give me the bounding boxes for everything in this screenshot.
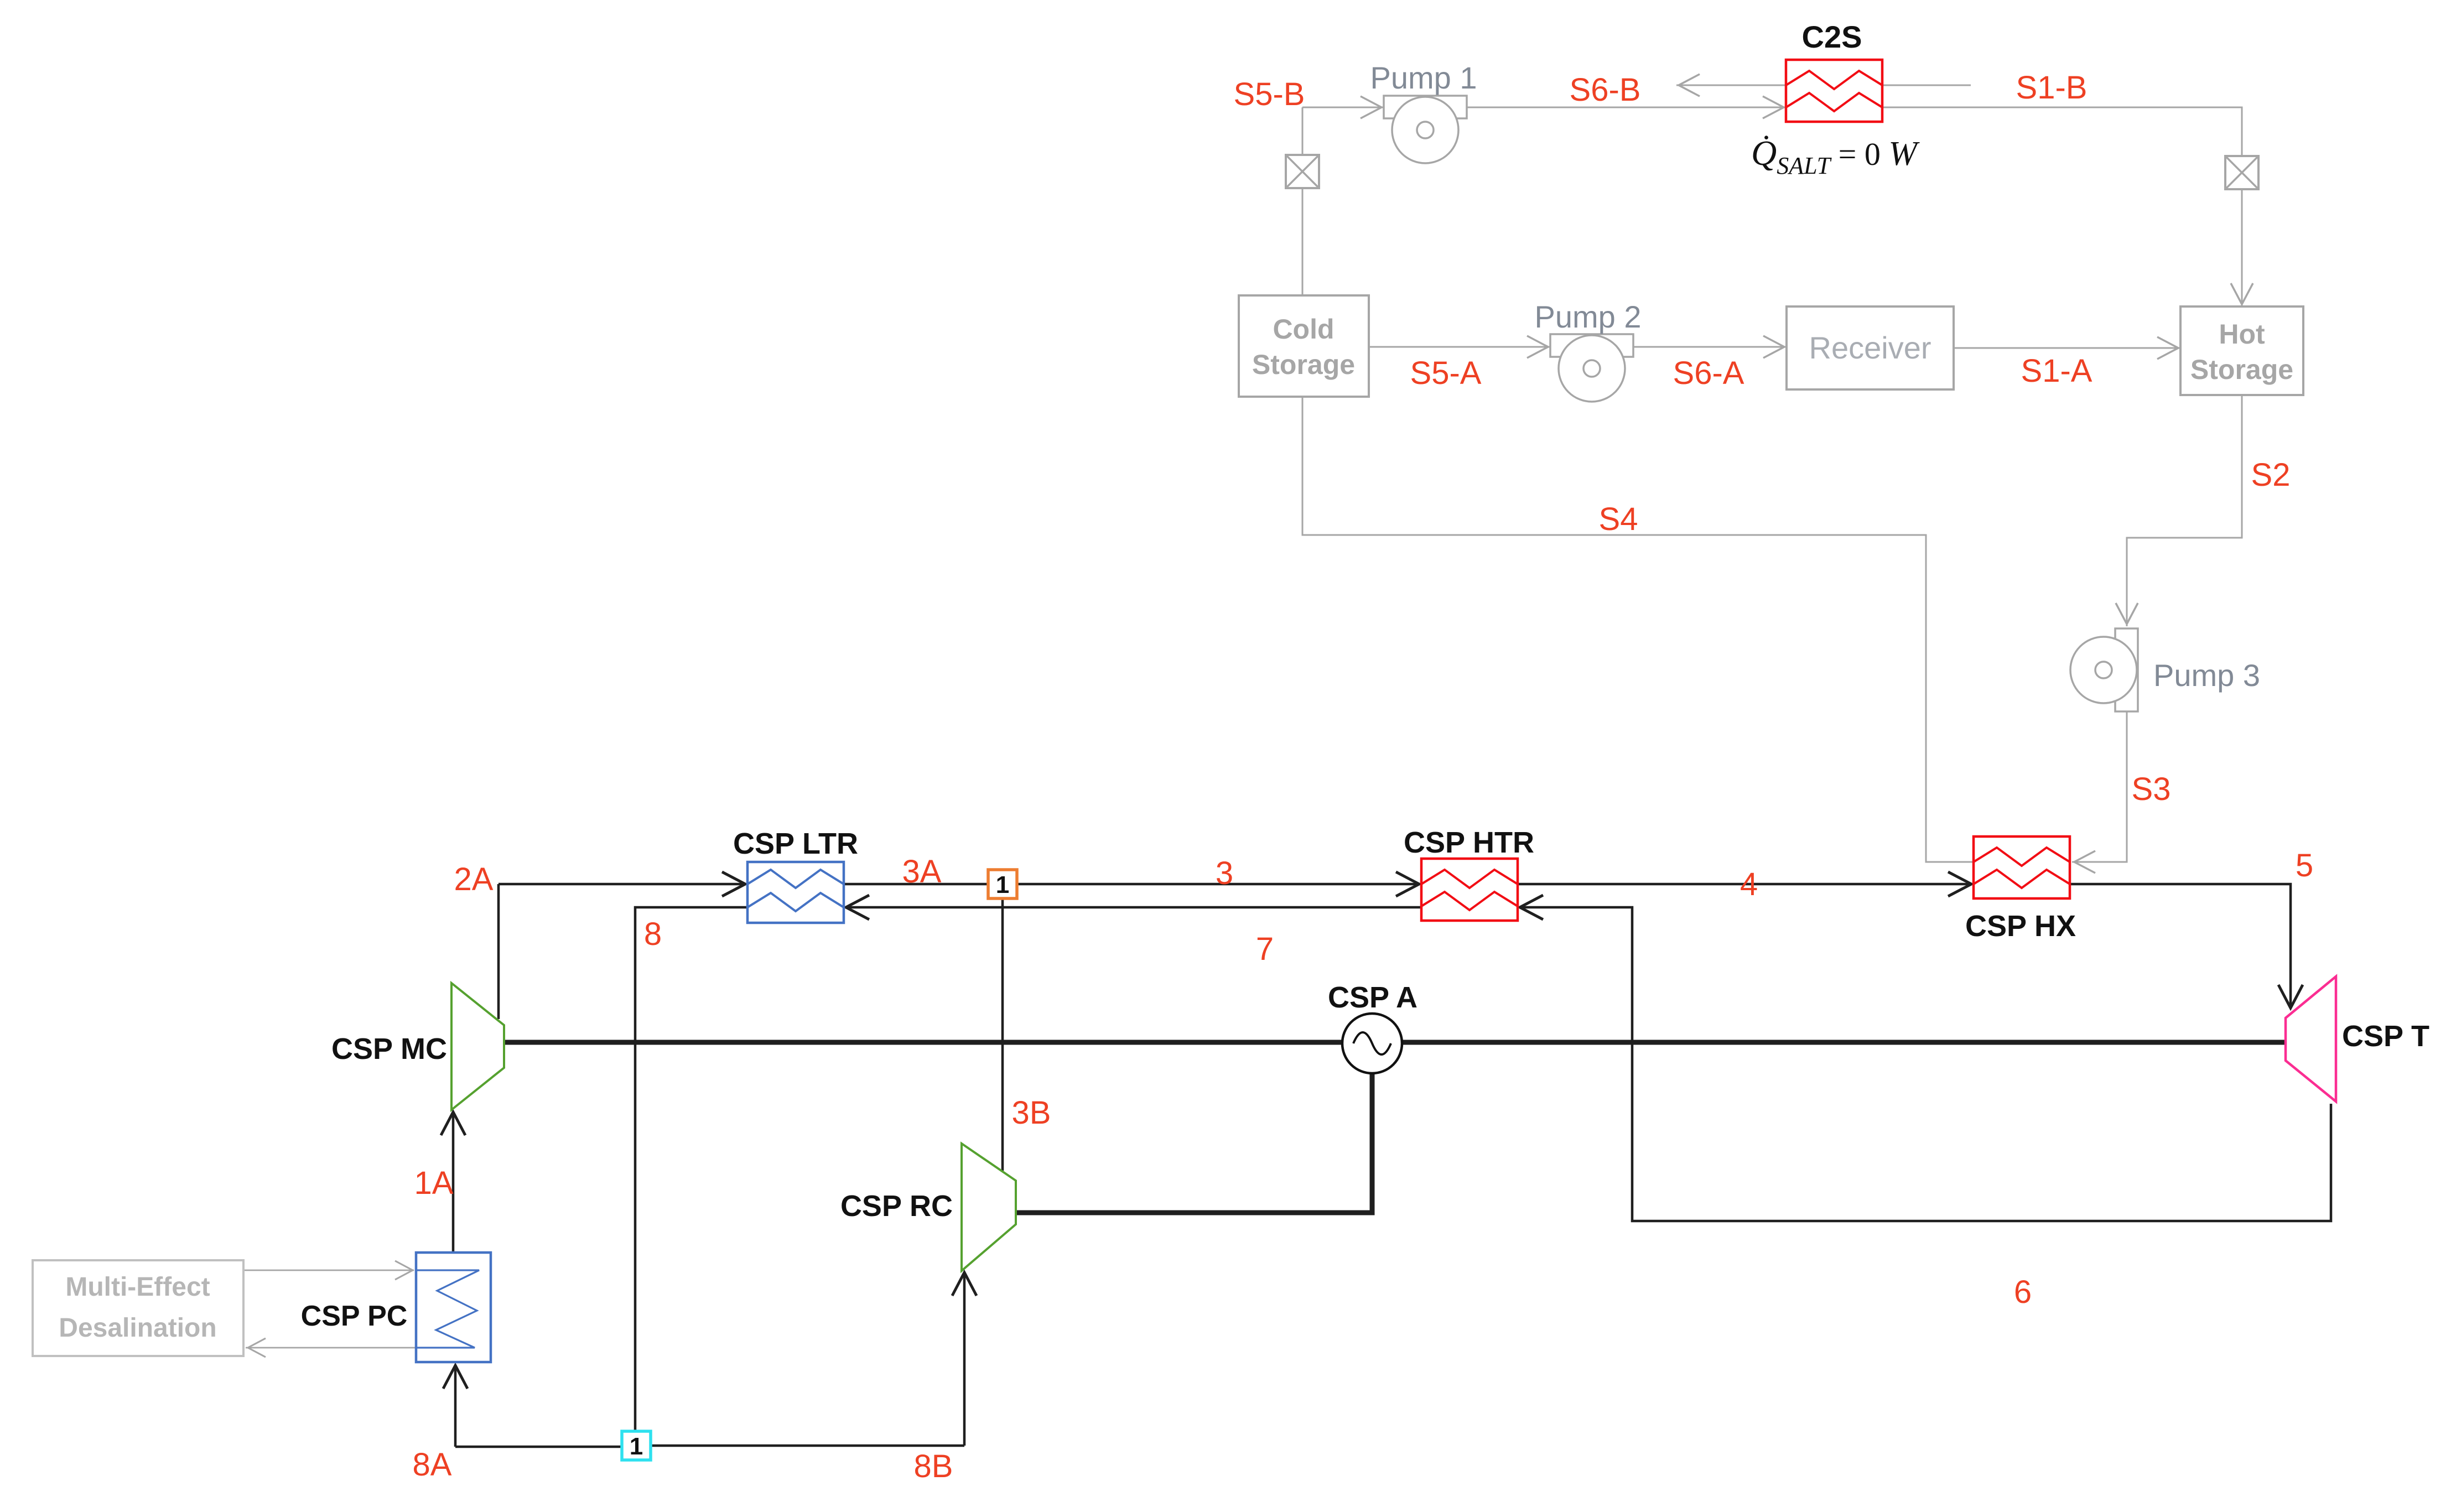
svg-text:Hot: Hot — [2219, 319, 2265, 350]
node 1 (orange split, stream 3A/3B) — [988, 870, 1017, 898]
wire C2S upper right stub — [1882, 85, 1971, 86]
shaft CSP MC to CSP T through CSP A — [504, 1040, 2286, 1045]
svg-text:8: 8 — [644, 916, 662, 952]
svg-text:S4: S4 — [1599, 501, 1638, 537]
svg-text:CSP RC: CSP RC — [840, 1189, 953, 1223]
heat exchanger CSP HX — [1974, 836, 2070, 898]
svg-text:3: 3 — [1216, 855, 1233, 891]
svg-text:CSP MC: CSP MC — [331, 1032, 447, 1066]
svg-text:3B: 3B — [1012, 1095, 1051, 1131]
wire 8A node to corner — [455, 1446, 622, 1448]
wire 3A / 3 from LTR through node to HTR — [844, 883, 1419, 886]
svg-text:CSP A: CSP A — [1328, 981, 1417, 1014]
wire S5-B vertical to Cold Storage — [1302, 107, 1304, 295]
wire S6-A Pump 2 to Receiver — [1633, 346, 1787, 348]
arrow into Receiver — [1763, 336, 1784, 358]
svg-text:CSP PC: CSP PC — [301, 1300, 408, 1332]
wire 3B node down to CSP RC — [1001, 898, 1004, 1171]
pump Pump 3 — [2070, 628, 2138, 711]
pump Pump 1 — [1384, 96, 1467, 163]
wire 8B vertical to CSP RC — [963, 1274, 966, 1446]
svg-text:1: 1 — [630, 1433, 643, 1460]
Receiver — [1787, 306, 1954, 389]
arrow into Hot Storage top — [2231, 283, 2253, 304]
Multi-Effect Desalination unit — [33, 1260, 243, 1356]
Hot Storage tank — [2180, 306, 2303, 395]
svg-text:S6-B: S6-B — [1570, 72, 1641, 108]
svg-text:Storage: Storage — [1252, 349, 1355, 380]
wire CSP PC to Desalination return — [246, 1347, 416, 1349]
svg-text:CSP T: CSP T — [2342, 1020, 2429, 1053]
turbine CSP T — [2286, 976, 2336, 1101]
arrow into Hot Storage left — [2157, 337, 2178, 359]
wire 2A vertical from CSP MC — [497, 884, 500, 1019]
wire 8 LTR down to split node — [635, 907, 747, 1431]
node 1 (cyan split, stream 8A/8B) — [622, 1431, 651, 1460]
compressor CSP RC — [962, 1144, 1016, 1271]
wire S6-B Pump 1 to C2S — [1467, 107, 1786, 108]
wire Desalination to CSP PC — [243, 1270, 414, 1271]
shaft CSP RC to CSP A — [1016, 1072, 1372, 1213]
svg-text:8A: 8A — [413, 1447, 452, 1483]
svg-text:S1-B: S1-B — [2016, 70, 2088, 106]
arrow into Pump 2 — [1527, 336, 1548, 358]
svg-text:CSP HX: CSP HX — [1965, 910, 2076, 943]
svg-text:7: 7 — [1256, 931, 1274, 967]
svg-text:Desalination: Desalination — [59, 1313, 216, 1343]
heat exchanger C2S — [1786, 60, 1882, 122]
arrow into CSP HX lower channel — [1948, 872, 1971, 896]
pump Pump 2 — [1550, 334, 1633, 402]
wire S4 Cold Storage to CSP HX — [1302, 397, 1974, 862]
svg-text:S2: S2 — [2251, 457, 2291, 493]
svg-text:CSP LTR: CSP LTR — [733, 827, 858, 860]
wire S5-A Cold Storage to Pump 2 — [1369, 346, 1550, 348]
valve left (S5-B line) — [1286, 155, 1319, 188]
wire S1-B valve to Hot Storage — [2241, 189, 2243, 306]
wire S1-B C2S to right valve — [1882, 107, 2242, 156]
compressor CSP MC — [451, 983, 504, 1110]
Cold Storage tank — [1239, 295, 1369, 397]
heat exchanger CSP LTR — [747, 862, 844, 923]
svg-text:1: 1 — [996, 871, 1009, 898]
arrow 1A into CSP MC bottom — [441, 1112, 465, 1135]
svg-text:4: 4 — [1740, 866, 1758, 902]
arrow into CSP HTR lower channel — [1520, 895, 1543, 919]
wire C2S upper outlet stub left — [1676, 85, 1786, 86]
wire S1-A Receiver to Hot Storage — [1954, 347, 2180, 349]
wire S5-B horizontal to Pump 1 — [1302, 107, 1384, 108]
arrow into Desalination right — [248, 1338, 266, 1357]
svg-text:S6-A: S6-A — [1673, 355, 1744, 391]
svg-text:6: 6 — [2014, 1274, 2032, 1310]
svg-text:S5-A: S5-A — [1410, 355, 1482, 391]
wire 4 HTR to CSP HX — [1518, 883, 1971, 886]
svg-text:Cold: Cold — [1273, 314, 1334, 345]
wire S3 Pump 3 to CSP HX — [2072, 711, 2127, 862]
arrow 8B into CSP RC bottom — [952, 1272, 977, 1296]
wire 2A horizontal to CSP LTR — [499, 883, 745, 886]
arrow into C2S lower channel — [1763, 96, 1784, 118]
heat exchanger CSP HTR — [1421, 859, 1518, 921]
arrow into Pump 3 — [2116, 603, 2138, 624]
svg-text:S3: S3 — [2132, 771, 2171, 807]
wire 8A vertical to CSP PC — [454, 1366, 457, 1447]
arrow into Pump 1 — [1361, 96, 1382, 118]
svg-text:Pump 3: Pump 3 — [2153, 658, 2260, 693]
svg-text:CSP HTR: CSP HTR — [1404, 826, 1534, 859]
svg-text:1A: 1A — [414, 1165, 454, 1201]
svg-text:3A: 3A — [902, 854, 942, 890]
svg-text:2A: 2A — [454, 861, 494, 897]
arrow into CSP LTR upper channel — [722, 872, 745, 896]
wire 5 CSP HX to turbine — [2070, 884, 2291, 1008]
arrow into CSP T inlet — [2278, 985, 2303, 1008]
svg-text:S5-B: S5-B — [1234, 76, 1305, 112]
cooler CSP PC — [416, 1253, 491, 1362]
generator CSP A — [1342, 1014, 1402, 1073]
wire 7 HTR to LTR — [846, 906, 1421, 909]
svg-text:Pump 1: Pump 1 — [1370, 60, 1477, 95]
svg-text:Multi-Effect: Multi-Effect — [65, 1272, 210, 1302]
arrow into CSP PC left — [395, 1261, 413, 1280]
arrow pointing left at C2S upper outlet — [1679, 74, 1700, 96]
svg-text:8B: 8B — [914, 1448, 953, 1484]
wire 6 turbine outlet to CSP HTR — [1520, 907, 2331, 1221]
wire 1A CSP PC to CSP MC — [452, 1113, 455, 1253]
svg-text:Pump 2: Pump 2 — [1535, 299, 1642, 334]
svg-text:5: 5 — [2296, 848, 2313, 884]
svg-text:Receiver: Receiver — [1809, 330, 1931, 365]
svg-text:C2S: C2S — [1802, 19, 1862, 54]
wire S2 Hot Storage to Pump 3 — [2127, 395, 2242, 626]
arrow into CSP HTR upper channel — [1396, 872, 1419, 896]
valve right (S1-B line) — [2225, 156, 2258, 189]
arrow into CSP LTR lower channel — [846, 895, 869, 919]
wire 8B node to corner — [650, 1445, 964, 1447]
svg-text:S1-A: S1-A — [2021, 353, 2092, 389]
svg-text:Storage: Storage — [2190, 354, 2293, 385]
arrow into CSP HX right channel — [2074, 851, 2095, 873]
arrow 8A into CSP PC bottom — [443, 1365, 468, 1389]
